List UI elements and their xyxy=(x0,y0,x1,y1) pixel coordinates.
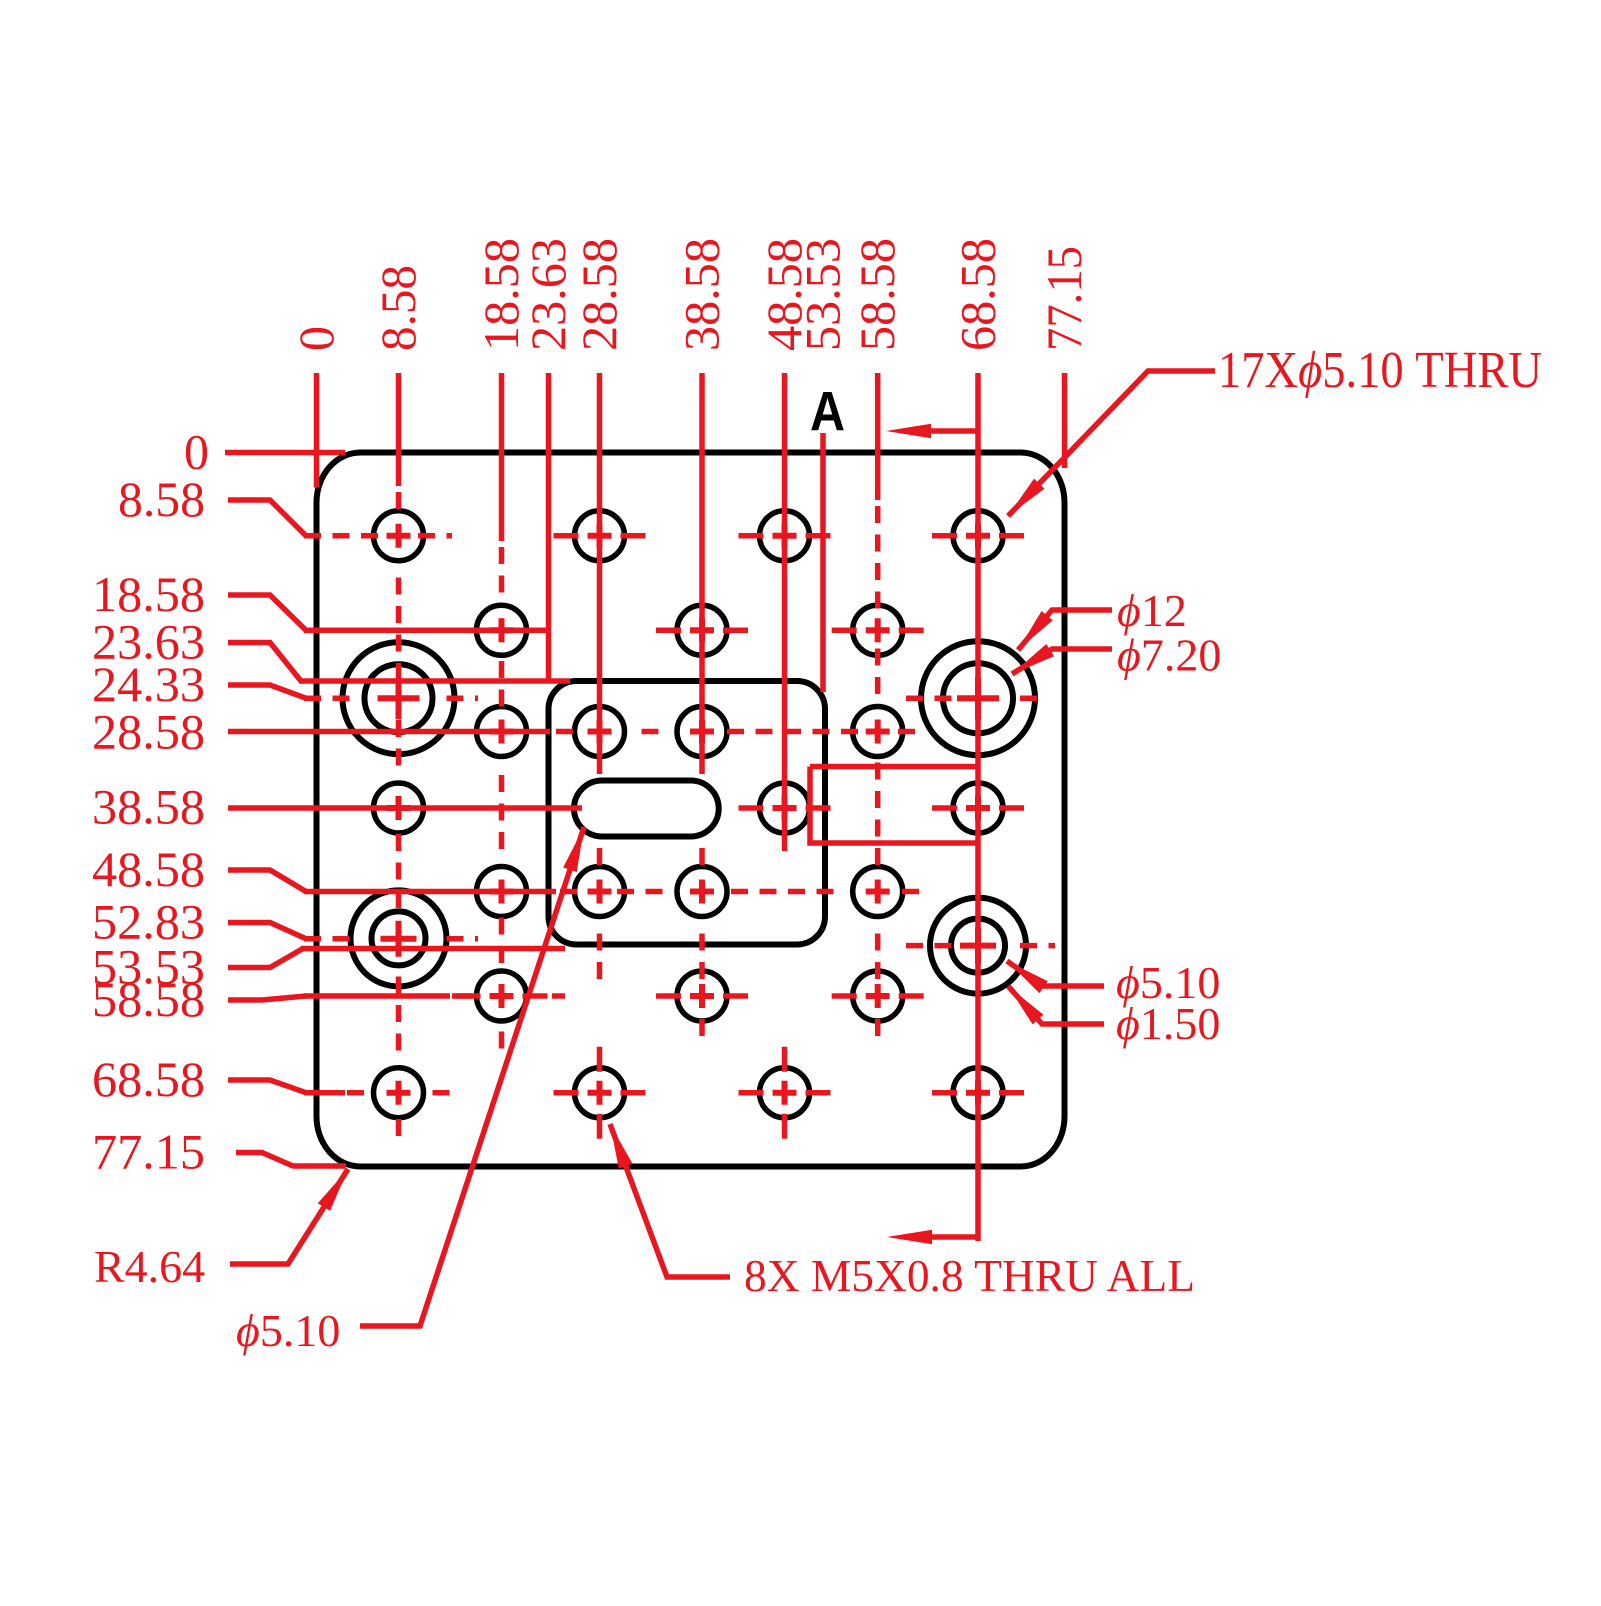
hole H4 centre mark xyxy=(966,524,990,548)
hole H5 centre mark xyxy=(490,618,514,642)
hole H21 centre mark xyxy=(866,984,890,1008)
hole H6 centre mark xyxy=(690,618,714,642)
hole H4 (5.10mm) at (978,536) xyxy=(953,511,1003,561)
section arrow bottom xyxy=(932,1234,978,1240)
hole H22 centre mark xyxy=(387,1081,411,1105)
hole H18 (5.10mm) at (878,892) xyxy=(853,867,903,917)
hole H7 (5.10mm) at (878,630) xyxy=(853,605,903,655)
hole H2 (5.10mm) at (600,536) xyxy=(575,511,625,561)
big hole bottom-right centerline xyxy=(906,943,1055,949)
hole H17 centre mark xyxy=(690,880,714,904)
hole H14 centre mark xyxy=(966,796,990,820)
hole H9 centre mark xyxy=(588,720,612,744)
svg-text:ϕ1.50: ϕ1.50 xyxy=(1116,998,1220,1049)
row 8.58 leader xyxy=(228,500,306,536)
hole H11 (5.10mm) at (878,732) xyxy=(853,707,903,757)
hole H3 centre mark xyxy=(773,524,797,548)
hole H12 centre mark xyxy=(387,796,411,820)
row 23.63 leader xyxy=(228,643,301,682)
svg-text:28.58: 28.58 xyxy=(571,238,627,351)
row 58.58 leader xyxy=(228,996,306,1000)
hole H15 centre mark xyxy=(490,880,514,904)
leader 12mm xyxy=(1018,610,1112,650)
hole H13 (5.10mm) at (784,808) xyxy=(760,783,810,833)
hole H9 (5.10mm) at (600,732) xyxy=(575,707,625,757)
row 77.15 leader xyxy=(236,1153,346,1167)
row 68.58 leader xyxy=(228,1080,306,1093)
counterbore hole bottom-right inner xyxy=(951,919,1005,973)
svg-text:53.53: 53.53 xyxy=(795,238,851,351)
svg-text:A: A xyxy=(810,380,845,443)
leader 5.10 bottom (slot) xyxy=(360,827,584,1326)
svg-text:77.15: 77.15 xyxy=(92,1124,205,1180)
hole H7 centre mark xyxy=(866,618,890,642)
hole H16 (5.10mm) at (600,892) xyxy=(575,867,625,917)
col 0 extension line xyxy=(314,373,320,488)
hole H22 (5.10mm) at (398,1093) xyxy=(374,1068,424,1118)
svg-text:17Xϕ5.10 THRU: 17Xϕ5.10 THRU xyxy=(1218,342,1542,399)
counterbore hole top-left outer (12mm) xyxy=(343,642,455,754)
section offset box xyxy=(810,764,978,770)
svg-text:R4.64: R4.64 xyxy=(94,1241,205,1292)
hole H24 centre mark xyxy=(773,1081,797,1105)
hole H3 (5.10mm) at (784,536) xyxy=(760,511,810,561)
col 18.58 extension line xyxy=(499,373,505,541)
leader 17X 5.10 THRU xyxy=(1008,371,1215,516)
hole H19 centre mark xyxy=(490,984,514,1008)
hole H21 (5.10mm) at (878,996) xyxy=(853,971,903,1021)
counterbore bottom-right centre mark xyxy=(960,928,996,964)
hole H10 (5.10mm) at (702,732) xyxy=(677,707,727,757)
row 38.58 dimension line xyxy=(228,805,582,811)
hole H23 centre mark xyxy=(588,1081,612,1105)
col 8.58 extension line xyxy=(396,373,402,486)
col 48.58 extension line xyxy=(782,373,788,851)
svg-text:ϕ12: ϕ12 xyxy=(1117,585,1187,636)
row 18.58 leader xyxy=(228,595,306,630)
col 58.58 extension line xyxy=(875,373,881,500)
counterbore hole top-right inner (7.20mm) xyxy=(943,663,1013,733)
svg-text:48.58: 48.58 xyxy=(92,841,205,897)
hole H1 centre mark xyxy=(387,524,411,548)
svg-text:68.58: 68.58 xyxy=(950,238,1006,351)
hole H13 centre mark xyxy=(773,796,797,820)
counterbore bottom-left centre mark xyxy=(381,921,417,957)
counterbore hole bottom-left inner xyxy=(372,911,426,965)
center pocket outline xyxy=(549,681,826,945)
hole H20 (5.10mm) at (702,996) xyxy=(677,971,727,1021)
svg-text:58.58: 58.58 xyxy=(849,238,905,351)
col 28.58 extension line xyxy=(597,373,603,757)
counterbore top-right centre mark xyxy=(957,677,999,719)
svg-text:ϕ7.20: ϕ7.20 xyxy=(1117,630,1221,681)
leader 8X M5 xyxy=(610,1124,730,1277)
svg-text:68.58: 68.58 xyxy=(92,1051,205,1107)
hole H12 (5.10mm) at (398,808) xyxy=(374,783,424,833)
counterbore top-left centre mark xyxy=(378,677,420,719)
leader 5.10 right xyxy=(1007,961,1104,986)
row 53.53 leader xyxy=(228,949,303,968)
svg-text:ϕ5.10: ϕ5.10 xyxy=(236,1305,340,1356)
col 38.58 extension line xyxy=(699,373,705,757)
svg-text:77.15: 77.15 xyxy=(1036,246,1092,351)
hole H16 centre mark xyxy=(588,880,612,904)
svg-text:38.58: 38.58 xyxy=(674,238,730,351)
section arrow top xyxy=(929,428,978,434)
section line A-A vertical xyxy=(975,373,981,1241)
plate outline xyxy=(317,453,1065,1167)
hole H20 centre mark xyxy=(690,984,714,1008)
counterbore hole top-right outer (12mm) xyxy=(921,641,1035,755)
row 0 dimension line xyxy=(225,450,345,456)
slot xyxy=(574,781,719,837)
big hole top-right centerline xyxy=(906,695,1037,701)
hole H25 (5.10mm) at (978,1093) xyxy=(953,1068,1003,1118)
svg-text:8.58: 8.58 xyxy=(118,471,205,527)
hole H24 (5.10mm) at (784,1093) xyxy=(760,1068,810,1118)
svg-text:28.58: 28.58 xyxy=(92,704,205,760)
leader R4.64 xyxy=(230,1169,348,1264)
svg-text:8X M5X0.8 THRU ALL: 8X M5X0.8 THRU ALL xyxy=(744,1250,1195,1301)
svg-text:38.58: 38.58 xyxy=(92,779,205,835)
row 52.83 leader xyxy=(228,923,306,939)
col 77.15 extension line xyxy=(1062,373,1068,468)
hole H25 centre mark xyxy=(966,1081,990,1105)
hole H6 (5.10mm) at (702,630) xyxy=(677,605,727,655)
hole H5 (5.10mm) at (502,630) xyxy=(477,605,527,655)
hole H14 (5.10mm) at (978,808) xyxy=(953,783,1003,833)
counterbore hole bottom-right outer xyxy=(930,898,1026,994)
hole H10 centre mark xyxy=(690,720,714,744)
hole H23 (5.10mm) at (600,1093) xyxy=(575,1068,625,1118)
hole H1 (5.10mm) at (398,536) xyxy=(374,511,424,561)
hole H2 centre mark xyxy=(588,524,612,548)
hole H15 (5.10mm) at (502,892) xyxy=(477,867,527,917)
row 48.58 leader xyxy=(228,870,306,892)
col 53.53 extension line xyxy=(820,433,826,692)
leader 7.20mm xyxy=(1012,649,1112,674)
hole H8 centre mark xyxy=(490,720,514,744)
col 23.63 extension line xyxy=(546,373,552,681)
leader 1.50 right xyxy=(1008,986,1104,1024)
row 28.58 dimension line xyxy=(228,729,550,735)
hole H8 (5.10mm) at (502,732) xyxy=(477,707,527,757)
row 24.33 leader xyxy=(228,685,306,698)
hole H17 (5.10mm) at (702,892) xyxy=(677,867,727,917)
svg-text:0: 0 xyxy=(288,326,344,351)
svg-text:58.58: 58.58 xyxy=(92,971,205,1027)
svg-text:23.63: 23.63 xyxy=(520,238,576,351)
counterbore hole top-left inner (7.20mm) xyxy=(365,664,433,732)
counterbore hole bottom-left outer xyxy=(351,890,447,986)
hole H19 (5.10mm) at (502,996) xyxy=(477,971,527,1021)
svg-text:8.58: 8.58 xyxy=(370,265,426,351)
hole H11 centre mark xyxy=(866,720,890,744)
hole H18 centre mark xyxy=(866,880,890,904)
